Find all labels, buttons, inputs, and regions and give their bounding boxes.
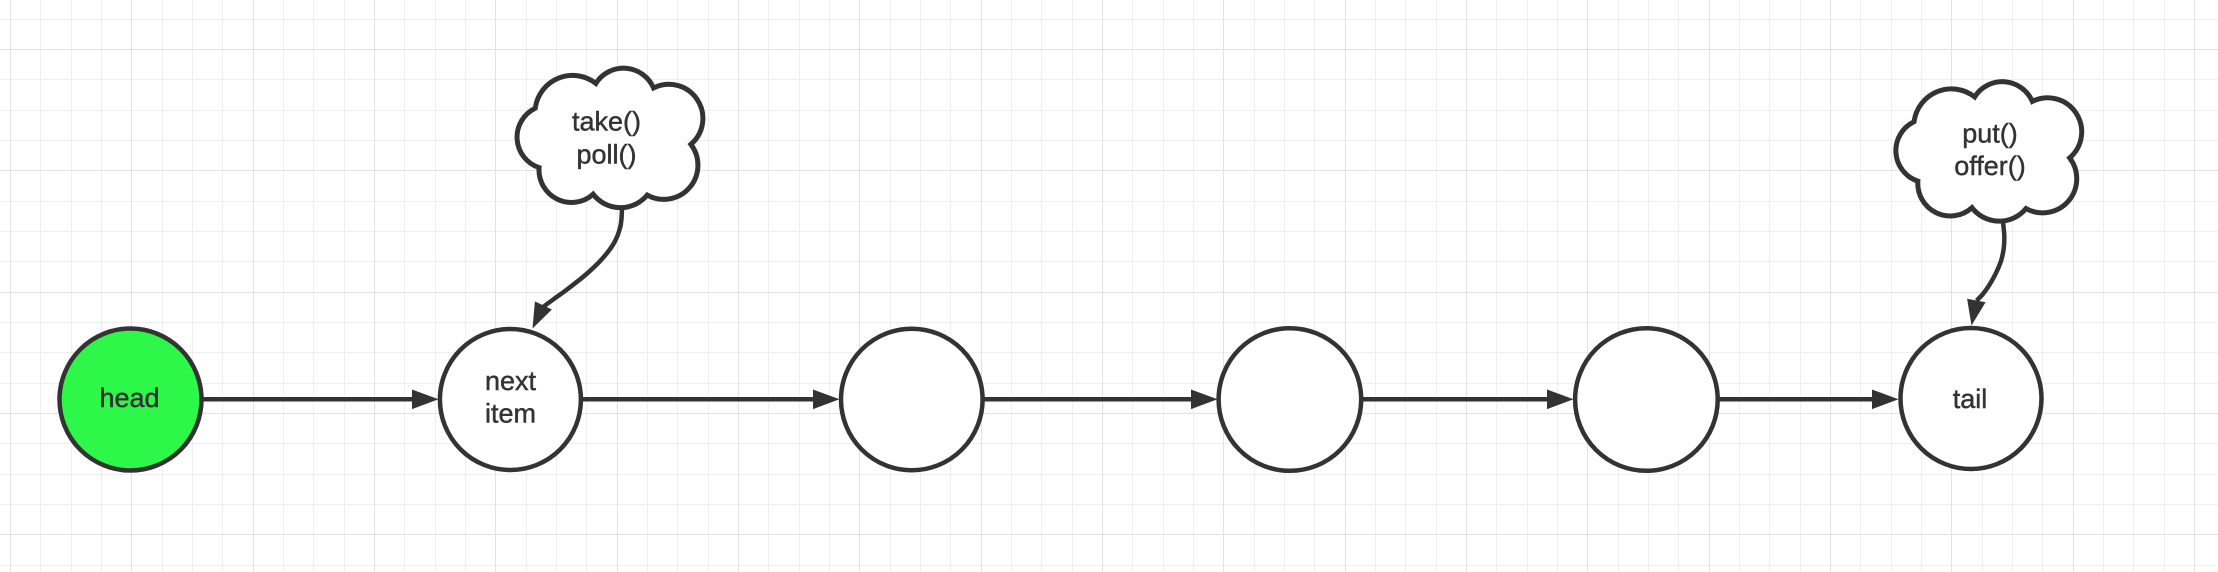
svg-text:poll(): poll(): [576, 140, 636, 170]
svg-text:next: next: [485, 366, 537, 396]
svg-text:offer(): offer(): [1954, 151, 2026, 181]
arrow next-item to node3: [581, 390, 840, 410]
node5 (empty circle): [1575, 328, 1718, 471]
arrow head to next-item: [202, 390, 439, 410]
node head (green circle): [60, 329, 202, 471]
svg-text:item: item: [485, 399, 536, 429]
node next-item: [440, 329, 581, 470]
curved arrow cloud put/offer to tail: [1967, 222, 2004, 326]
svg-text:take(): take(): [572, 107, 641, 137]
cloud take()/poll(): [517, 68, 703, 207]
cloud put()/offer(): [1896, 82, 2082, 221]
arrow node3 to node4: [983, 390, 1218, 410]
curved arrow cloud take/poll to next-item: [533, 209, 623, 329]
node3 (empty circle): [841, 329, 983, 471]
svg-text:head: head: [99, 383, 159, 413]
node tail: [1901, 328, 2042, 469]
node4 (empty circle): [1219, 328, 1362, 471]
arrow node4 to node5: [1361, 390, 1573, 410]
svg-text:tail: tail: [1953, 384, 1988, 414]
arrow node5 to tail: [1718, 390, 1899, 410]
svg-text:put(): put(): [1962, 119, 2018, 149]
